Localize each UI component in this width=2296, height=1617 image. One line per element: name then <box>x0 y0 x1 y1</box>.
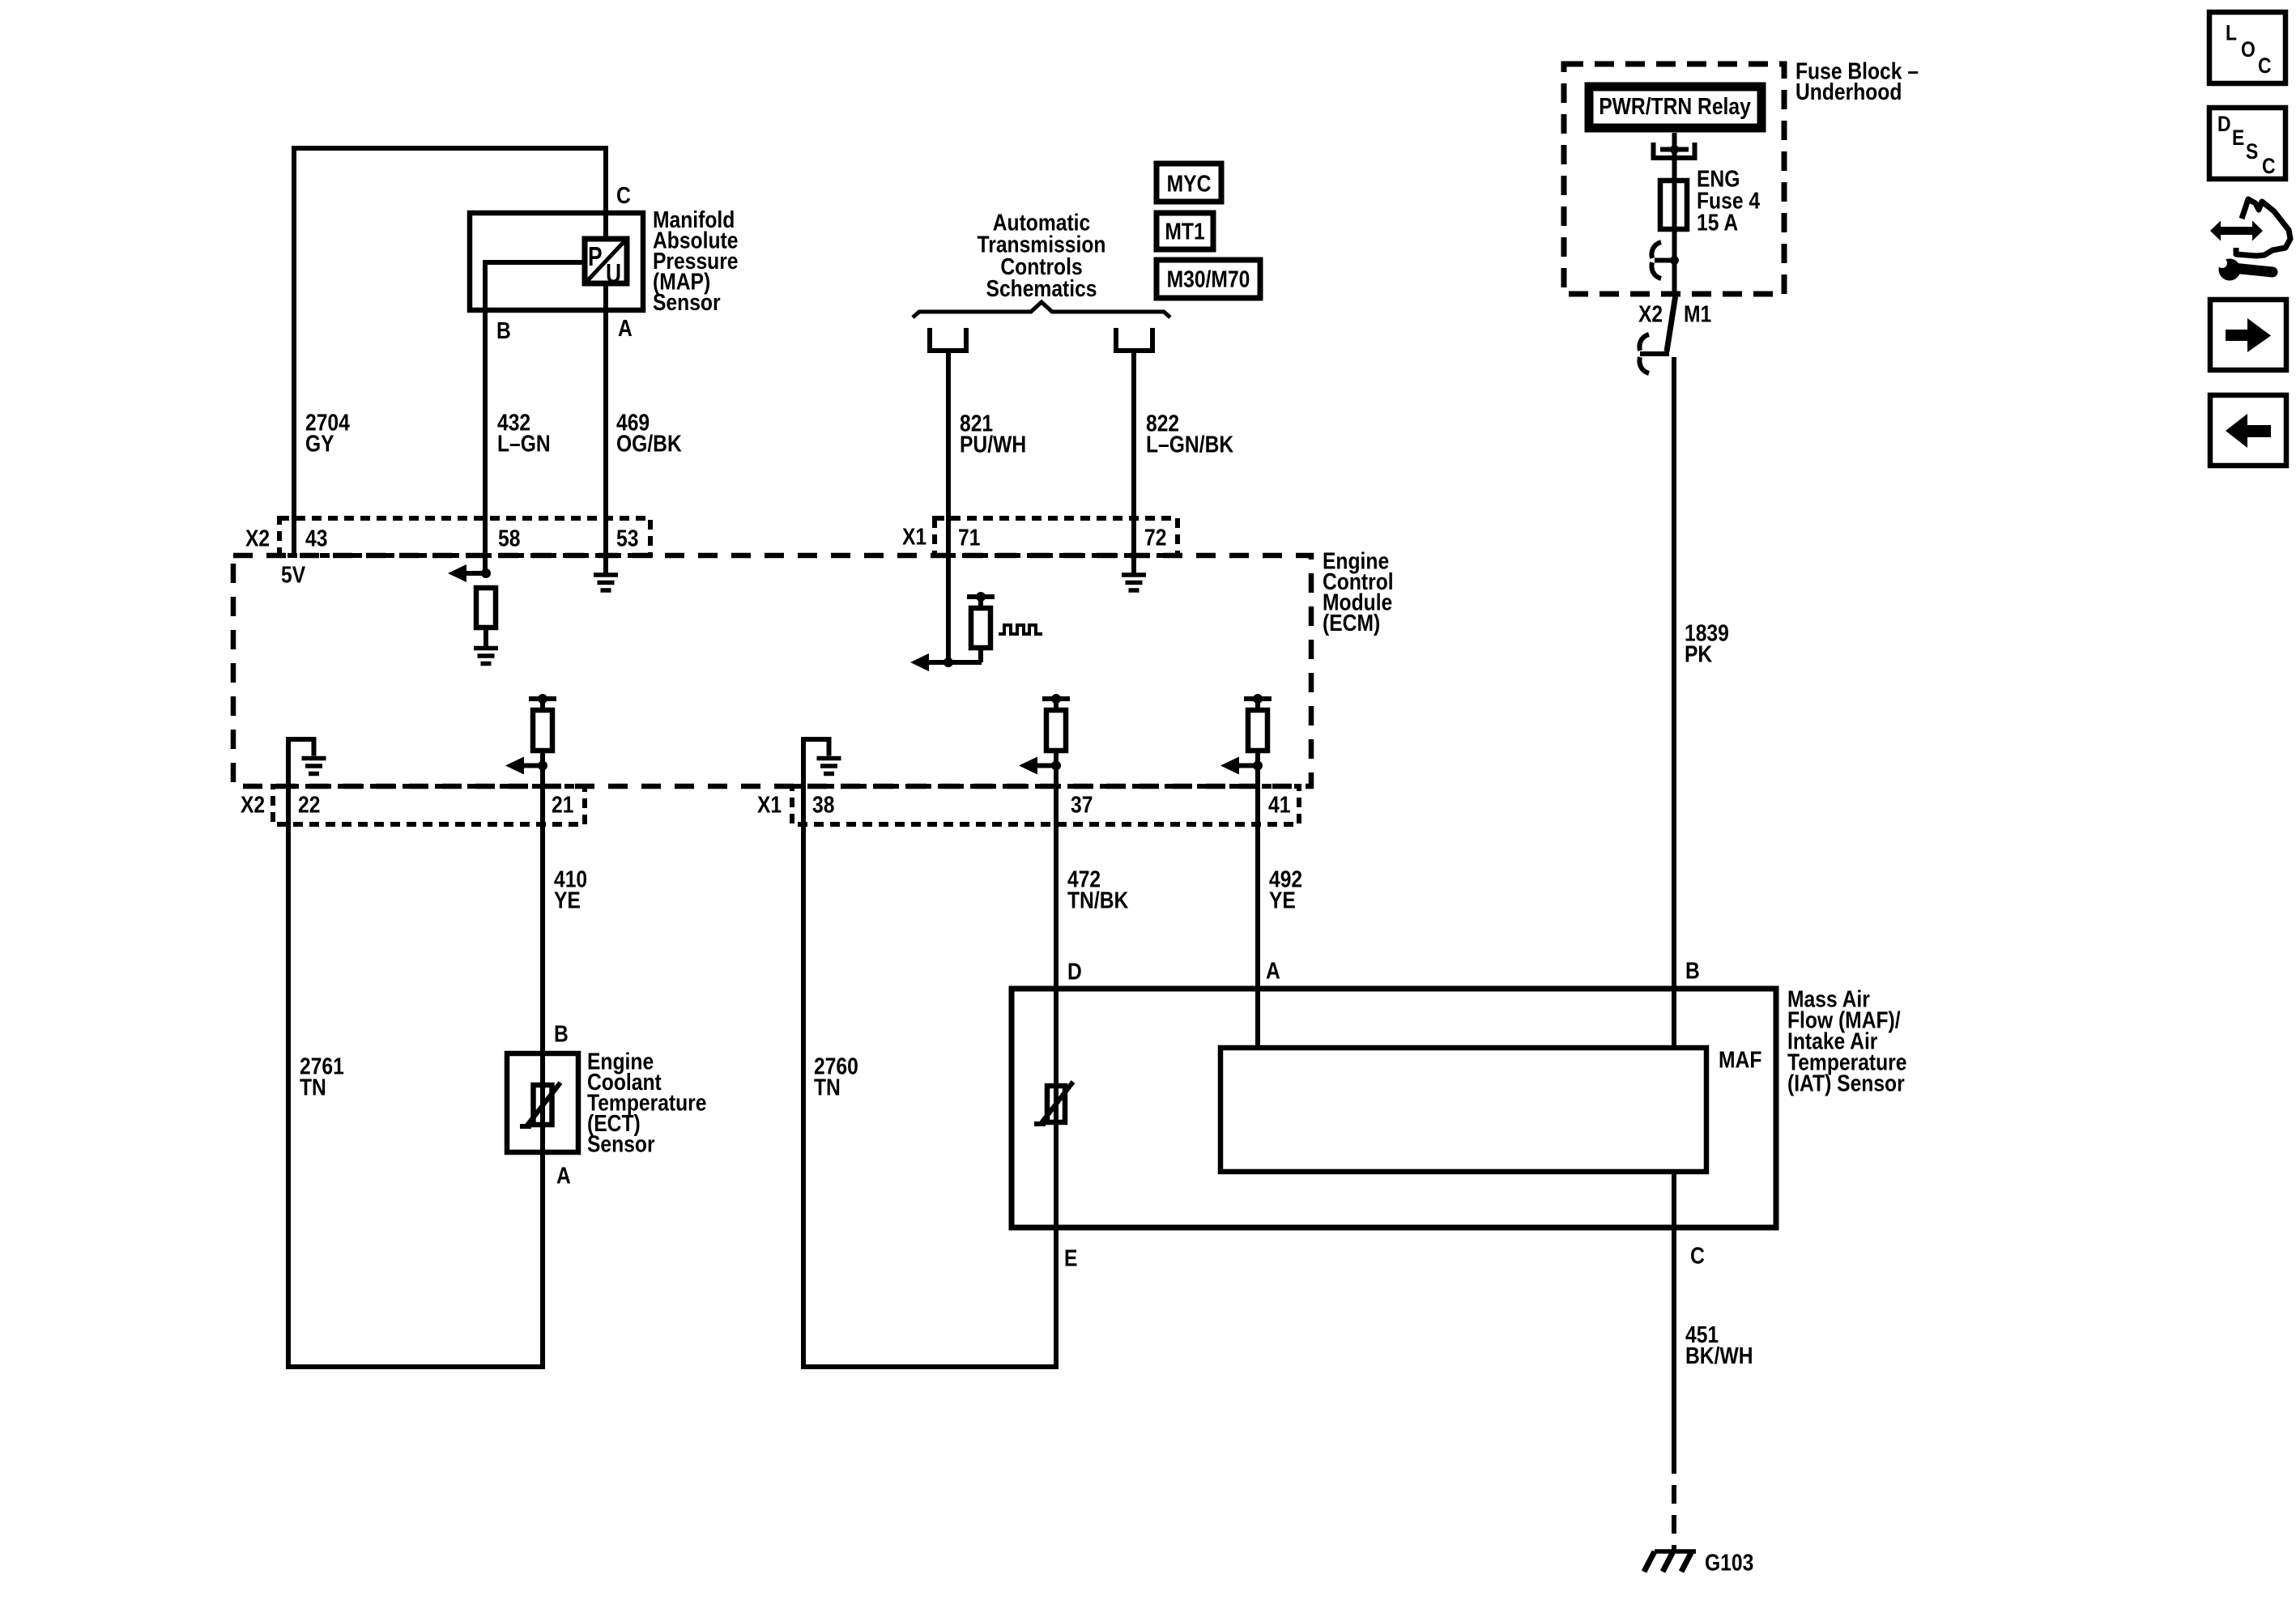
svg-text:X1: X1 <box>902 524 926 550</box>
svg-text:5V: 5V <box>281 562 305 588</box>
ground: ECM internal bent ground at pin 22 <box>288 739 326 786</box>
svg-text:53: 53 <box>616 526 638 551</box>
svg-text:TN: TN <box>300 1074 326 1100</box>
MAF/IAT sensor outer box <box>1012 989 1776 1228</box>
ground: ECM internal bent ground at pin 38 <box>803 739 841 786</box>
node: fuse block bus tap <box>1651 242 1679 279</box>
svg-text:D: D <box>2217 112 2231 136</box>
svg-text:15 A: 15 A <box>1697 210 1738 236</box>
wire: relay output to fuse <box>1672 133 1677 261</box>
svg-text:L–GN: L–GN <box>497 431 551 457</box>
wire label 1839 PK <box>1685 620 1729 667</box>
wire label 469 OG/BK <box>616 410 682 457</box>
connector bracket below relay <box>1654 143 1695 158</box>
wire label 472 TN/BK <box>1067 866 1129 913</box>
svg-text:A: A <box>556 1163 571 1189</box>
svg-text:L–GN/BK: L–GN/BK <box>1146 432 1234 457</box>
wire 410 YE: pin 21 to ECT sensor pin B <box>540 786 545 1367</box>
svg-text:OG/BK: OG/BK <box>616 431 682 457</box>
connector X1 pin box (pins 38 37 41) <box>792 786 1299 824</box>
svg-text:TN: TN <box>814 1074 841 1100</box>
svg-text:43: 43 <box>305 526 327 551</box>
svg-text:(IAT) Sensor: (IAT) Sensor <box>1787 1070 1905 1096</box>
connector X2 pin box (pins 22 21) <box>273 786 585 824</box>
wire 492 YE: pin 41 to MAF pin A <box>1255 786 1260 1048</box>
wire 451 BK/WH: MAF pin C to ground <box>1672 1172 1676 1474</box>
svg-text:M30/M70: M30/M70 <box>1167 266 1250 292</box>
wire 2761 TN: pin 22 loop to ECT sensor pin A <box>288 786 543 1367</box>
wire 451 dashed continuation <box>1672 1474 1676 1551</box>
wire 822 L-GN/BK <box>1131 351 1136 575</box>
wire label 822 L-GN/BK <box>1146 411 1234 457</box>
resistor: ECM internal pull-up on pin 41 <box>1220 694 1272 786</box>
svg-text:PU/WH: PU/WH <box>960 432 1026 457</box>
MAP sensor name label <box>653 206 739 315</box>
svg-text:B: B <box>1685 958 1700 984</box>
svg-text:PWR/TRN Relay: PWR/TRN Relay <box>1599 93 1751 119</box>
connector X1 pin box (pins 71 72) <box>935 518 1178 555</box>
box M30/M70 <box>1157 260 1260 298</box>
wire label 492 YE <box>1269 866 1302 913</box>
ECT sensor box <box>507 1053 578 1152</box>
brace under transmission label <box>913 302 1170 317</box>
wire label 821 PU/WH <box>960 411 1026 457</box>
svg-text:41: 41 <box>1268 792 1290 818</box>
label: Automatic Transmission Controls Schematics <box>978 210 1106 302</box>
ground: ECM internal ground below pin 58 resistor <box>474 649 498 664</box>
relay PWR/TRN <box>1589 87 1761 128</box>
svg-text:BK/WH: BK/WH <box>1685 1343 1753 1368</box>
box MT1 <box>1157 213 1213 249</box>
svg-text:X2: X2 <box>245 526 270 551</box>
Fuse Block name label <box>1795 58 1919 105</box>
icon left arrow box <box>2210 395 2286 466</box>
wire label 2761 TN <box>300 1053 344 1100</box>
svg-text:YE: YE <box>1269 887 1296 913</box>
svg-text:M1: M1 <box>1684 301 1711 327</box>
MAF/IAT sensor name label <box>1787 986 1906 1096</box>
svg-text:A: A <box>618 315 633 341</box>
svg-text:C: C <box>1690 1243 1705 1269</box>
MAP sensor box <box>470 213 643 310</box>
resistor: ECM internal pull-up on pin 21 <box>505 694 556 786</box>
Fuse Block Underhood dashed box <box>1564 64 1784 294</box>
wire label 432 L-GN <box>497 410 551 457</box>
svg-text:(ECM): (ECM) <box>1323 610 1380 636</box>
svg-text:Sensor: Sensor <box>587 1131 655 1157</box>
wire 1839 PK: down to MAF pin B <box>1672 357 1676 1048</box>
wire label 410 YE <box>554 866 587 913</box>
resistor: ECM internal pull-up on pin 37 <box>1019 694 1070 786</box>
svg-text:PK: PK <box>1685 641 1713 667</box>
svg-text:MYC: MYC <box>1167 171 1212 197</box>
wire 472 TN/BK: pin 37 to MAF/IAT pin D <box>1054 786 1059 1228</box>
thermistor ECT <box>520 1083 560 1126</box>
wire 432 L-GN: MAP pin B signal down to ECM pin 58 <box>485 262 585 573</box>
wire 2760 TN: pin 38 loop to MAF sensor pin E <box>803 786 1056 1367</box>
svg-text:22: 22 <box>298 792 320 818</box>
svg-text:GY: GY <box>305 431 334 457</box>
resistor: ECM internal pull-up on pin 71 <box>948 592 995 662</box>
svg-text:G103: G103 <box>1705 1550 1753 1576</box>
svg-text:E: E <box>2232 126 2244 150</box>
svg-text:B: B <box>554 1021 569 1047</box>
svg-text:C: C <box>2262 154 2276 178</box>
node: ECM pin 58 junction with reference arrow <box>448 564 491 582</box>
wire 1839 PK upper: fuse to connector X2/M1 <box>1672 261 1677 296</box>
wire 2704 GY: 5V feed loop from ECM pin 43 up and over to MAP pin C <box>294 148 606 555</box>
svg-text:A: A <box>1266 958 1280 984</box>
svg-text:Sensor: Sensor <box>653 289 721 315</box>
icon DESC box <box>2209 108 2285 179</box>
thermistor IAT <box>1034 1082 1073 1124</box>
svg-text:71: 71 <box>958 525 980 551</box>
MAF inner box <box>1220 1048 1706 1172</box>
svg-text:X2: X2 <box>1638 301 1663 327</box>
svg-text:Underhood: Underhood <box>1795 79 1902 104</box>
svg-text:72: 72 <box>1144 525 1166 551</box>
icon hand with wrench and double arrow <box>2210 199 2290 281</box>
ground G103 chassis ground <box>1644 1551 1696 1572</box>
svg-text:X2: X2 <box>241 792 265 818</box>
svg-text:B: B <box>496 317 511 343</box>
wire 821 PU/WH <box>946 351 951 662</box>
node: ECM pin 71 junction with reference arrow <box>910 653 953 671</box>
svg-text:C: C <box>2258 53 2272 78</box>
svg-text:X1: X1 <box>757 792 782 818</box>
svg-text:P: P <box>588 242 603 271</box>
connector X2 pin box (pins 43 58 53) <box>279 518 650 555</box>
wire label 451 BK/WH <box>1685 1321 1753 1368</box>
wire label 2760 TN <box>814 1053 858 1100</box>
ground: ECM internal ground at pin 53 <box>594 575 618 590</box>
fuse ENG Fuse 4 15A <box>1660 181 1687 229</box>
svg-text:E: E <box>1064 1245 1077 1271</box>
svg-text:D: D <box>1067 959 1082 985</box>
Engine Control Module dashed box <box>233 555 1311 786</box>
svg-text:S: S <box>2246 139 2258 164</box>
MAP P/U transducer symbol <box>585 239 627 289</box>
ECM name label <box>1323 548 1394 636</box>
ECT sensor name label <box>587 1049 706 1157</box>
svg-text:YE: YE <box>554 887 581 913</box>
resistor: ECM internal pull-down on pin 58 <box>476 588 496 646</box>
connector bracket for wire 821 <box>930 328 966 351</box>
icon right arrow box <box>2210 300 2286 370</box>
connector bracket for wire 822 <box>1116 328 1152 351</box>
svg-text:58: 58 <box>498 526 520 551</box>
square wave signal symbol <box>999 625 1042 634</box>
wire label 2704 GY <box>305 410 350 457</box>
svg-text:21: 21 <box>552 792 573 818</box>
svg-text:O: O <box>2241 37 2256 62</box>
svg-text:38: 38 <box>812 792 834 818</box>
svg-text:L: L <box>2226 21 2237 45</box>
icon LOC box <box>2209 12 2285 83</box>
fuse name label <box>1697 166 1760 236</box>
svg-text:37: 37 <box>1071 792 1093 818</box>
svg-text:MT1: MT1 <box>1165 219 1204 245</box>
wire 469 OG/BK: MAP pin A down through pin 53 to ECM ground <box>603 283 608 575</box>
connector X2 M1 pass-through <box>1639 295 1676 373</box>
svg-text:U: U <box>606 259 621 288</box>
svg-text:TN/BK: TN/BK <box>1067 887 1129 913</box>
box MYC <box>1157 164 1221 202</box>
svg-text:MAF: MAF <box>1719 1047 1761 1073</box>
ground: ECM internal ground at pin 72 <box>1122 575 1146 590</box>
svg-text:Schematics: Schematics <box>986 275 1097 301</box>
svg-text:C: C <box>616 182 631 208</box>
